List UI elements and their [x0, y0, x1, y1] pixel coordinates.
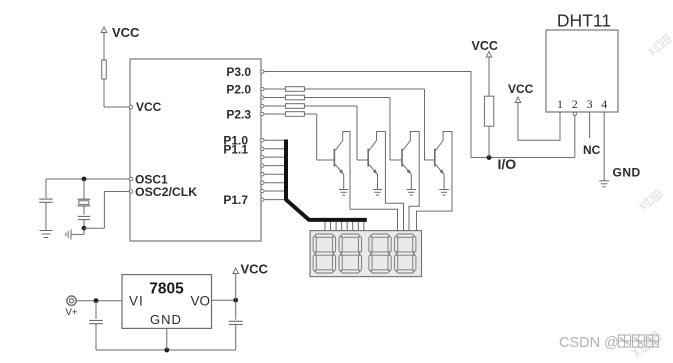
svg-text:I/O: I/O	[498, 156, 517, 172]
svg-text:1: 1	[557, 97, 563, 111]
svg-text:GND: GND	[613, 166, 641, 180]
svg-text:OSC2/CLK: OSC2/CLK	[135, 185, 197, 199]
svg-text:V+: V+	[66, 307, 78, 318]
svg-text:VCC: VCC	[136, 100, 162, 114]
svg-text:7805: 7805	[149, 281, 184, 298]
svg-text:VCC: VCC	[241, 262, 269, 277]
svg-text:P1.7: P1.7	[223, 193, 248, 207]
svg-text:GND: GND	[150, 312, 182, 327]
svg-text:VO: VO	[191, 294, 211, 309]
svg-text:VCC: VCC	[112, 25, 140, 40]
svg-text:CSDN @: CSDN @	[559, 335, 619, 351]
svg-text:2: 2	[572, 97, 578, 111]
svg-text:DHT11: DHT11	[557, 11, 611, 31]
svg-text:VCC: VCC	[472, 39, 498, 53]
svg-text:P3.0: P3.0	[226, 65, 251, 79]
svg-text:VI: VI	[129, 294, 144, 309]
svg-text:NC: NC	[583, 143, 601, 157]
svg-text:4: 4	[601, 97, 607, 111]
svg-text:P1.1: P1.1	[223, 143, 248, 157]
svg-text:P2.3: P2.3	[226, 108, 251, 122]
svg-text:3: 3	[587, 97, 593, 111]
svg-text:P2.0: P2.0	[226, 83, 251, 97]
svg-text:VCC: VCC	[508, 82, 534, 96]
